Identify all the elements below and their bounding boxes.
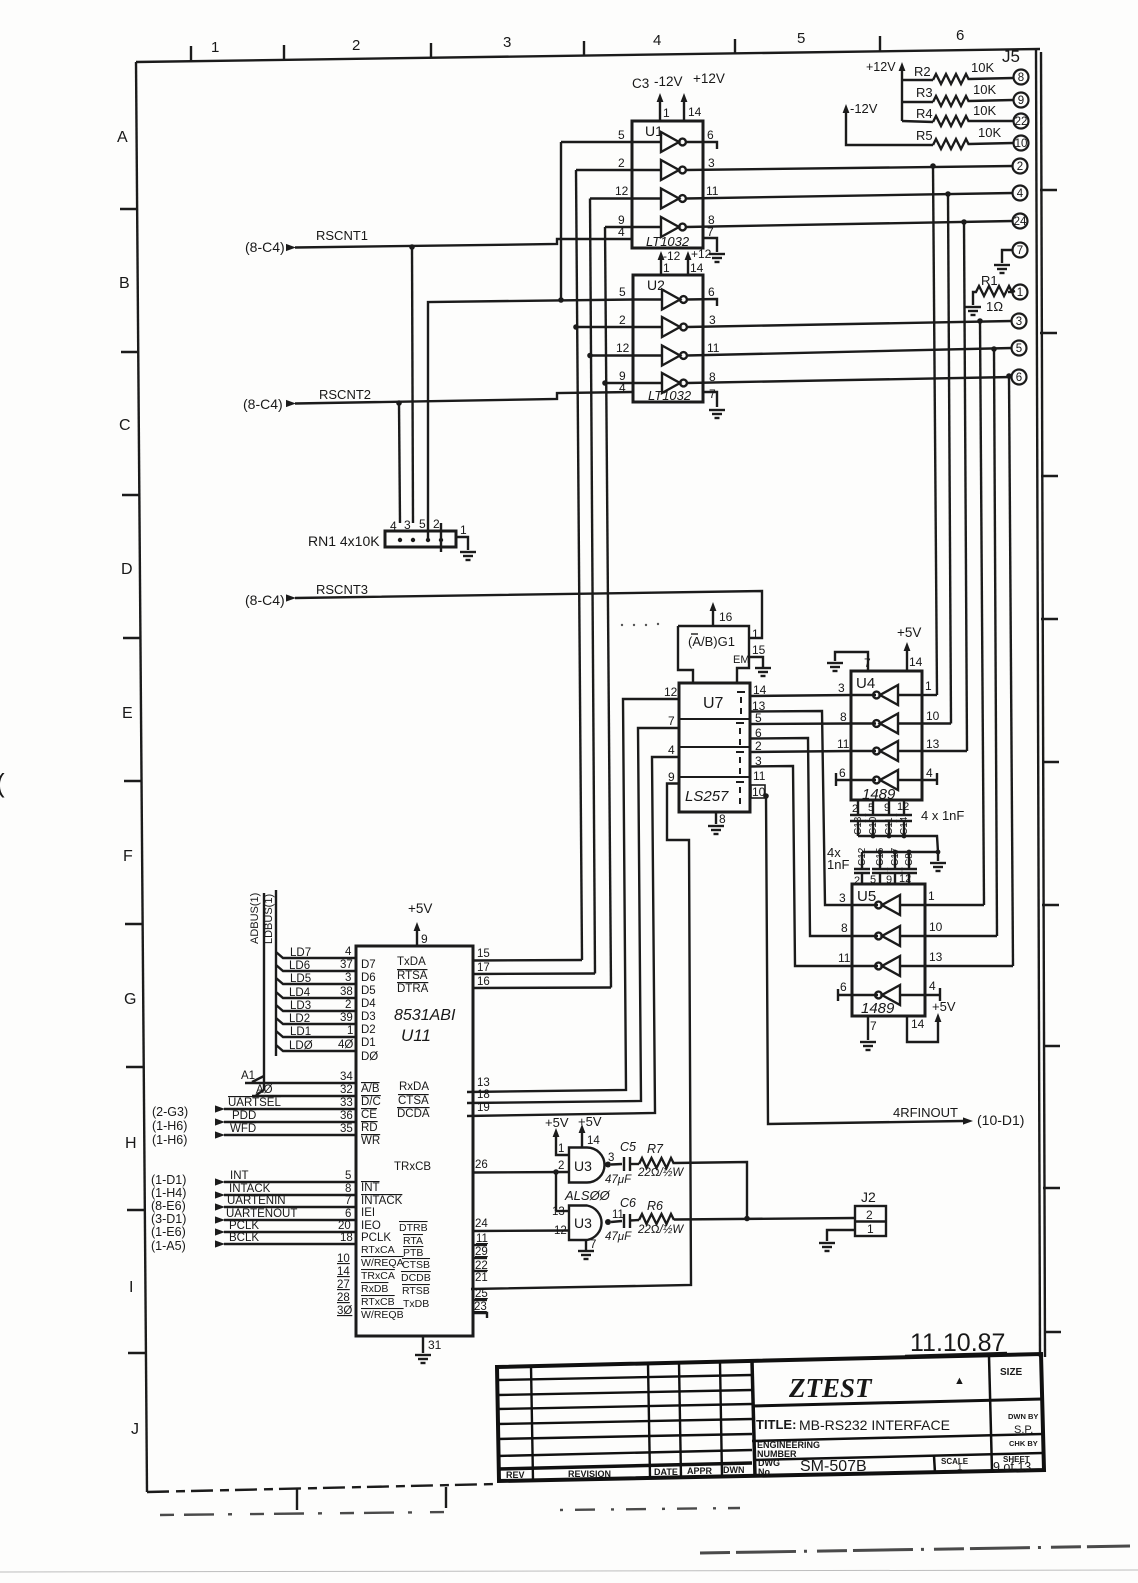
svg-text:4: 4 [1017,188,1024,200]
U3a output to C5 [611,1163,622,1166]
svg-text:8531ABI: 8531ABI [394,1007,456,1024]
U2 pin11 out wire to J5.5 [687,348,1012,356]
resistor R5 [933,139,969,149]
svg-text:DCDA: DCDA [397,1108,430,1120]
U5 input wires [900,904,925,906]
svg-text:C: C [119,417,131,434]
U4 pin1 wire [922,694,937,696]
off-page arrow RSCNT3 [286,594,296,601]
svg-text:14: 14 [911,1017,925,1031]
svg-text:37: 37 [340,959,353,971]
LD2 wire [276,1018,356,1024]
revision table h-lines [497,1375,752,1380]
ruler tick top 3 [430,43,432,58]
svg-text:+5V: +5V [408,901,432,916]
svg-text:IEI: IEI [361,1207,375,1219]
svg-text:6: 6 [839,766,846,780]
svg-text:2: 2 [558,1160,564,1172]
svg-text:13: 13 [477,1077,490,1089]
svg-text:1: 1 [928,889,935,903]
svg-text:4Ø: 4Ø [338,1039,353,1051]
svg-text:C15: C15 [875,847,886,866]
LD0 wire [276,1045,356,1051]
U7 pin5 wire from U4.8 [750,722,851,725]
svg-text:2: 2 [866,1208,873,1222]
svg-text:D2: D2 [361,1024,376,1036]
-12V arrow feed wire [846,110,933,145]
U2 pin7 ground stub [703,392,717,407]
vertical U1.9 to U2.9 to DTRA [605,227,611,988]
svg-text:4 x 1nF: 4 x 1nF [921,808,964,823]
svg-text:C11: C11 [884,817,895,835]
UARTENIN wire [224,1206,356,1208]
svg-text:7: 7 [345,1195,351,1207]
DTRB wire [473,1229,569,1232]
svg-text:16: 16 [719,610,733,624]
J5 pin circle 10 [1014,136,1029,151]
svg-text:LT1032: LT1032 [648,388,692,403]
svg-text:22: 22 [1015,116,1028,128]
svg-text:LDØ: LDØ [289,1040,313,1052]
wire RSCNT1 junction down to RN1.3 [412,247,413,523]
svg-text:9: 9 [1018,95,1024,107]
U1 pin14 power [683,99,685,121]
svg-text:SCALE: SCALE [941,1457,969,1466]
svg-text:+12: +12 [691,247,712,261]
svg-text:11: 11 [476,1233,488,1245]
U3b output to C6 [611,1221,622,1222]
svg-text:W/REQB: W/REQB [361,1309,404,1321]
svg-text:14: 14 [587,1135,600,1147]
U5 pin10 wire [925,935,997,937]
U7 pin2 wire from U4.11 [750,751,851,752]
svg-text:5: 5 [797,30,805,47]
svg-text:H: H [125,1135,137,1152]
svg-text:15: 15 [477,948,490,960]
pin10 square [751,785,765,798]
svg-text:LD1: LD1 [290,1026,311,1038]
svg-text:13: 13 [552,1206,565,1218]
main divider left of ZTEST [752,1361,755,1476]
svg-text:24: 24 [1014,216,1027,228]
svg-text:39: 39 [340,1012,353,1024]
svg-text:27: 27 [337,1279,350,1291]
svg-text:3: 3 [708,156,715,170]
svg-text:+5V: +5V [545,1115,569,1130]
svg-text:R3: R3 [916,85,933,100]
svg-text:LD2: LD2 [289,1013,310,1025]
J5 pin circle 5 [1012,341,1027,356]
svg-text:33: 33 [340,1097,353,1109]
svg-text:LDBUS(1): LDBUS(1) [263,894,275,944]
svg-text:18: 18 [477,1089,490,1101]
svg-text:ADBUS(1): ADBUS(1) [249,893,261,944]
svg-text:6: 6 [840,980,847,994]
svg-text:6: 6 [956,27,964,44]
svg-text:32: 32 [340,1084,353,1096]
inverter U1d [661,217,686,237]
svg-text:(8-E6): (8-E6) [151,1199,186,1213]
svg-text:MB-RS232 INTERFACE: MB-RS232 INTERFACE [799,1417,950,1433]
svg-text:1: 1 [957,1462,963,1473]
cap ground bus upper [858,836,938,852]
svg-text:DATE: DATE [654,1467,678,1477]
svg-text:7: 7 [864,656,871,670]
WFD wire [224,1134,356,1136]
J5 pin circle 1 [1013,285,1028,300]
svg-text:11: 11 [753,769,766,783]
wire RN1.5 up to U2.5 [428,300,633,524]
UARTSEL wire [224,1108,356,1110]
svg-text:R4: R4 [916,106,933,121]
U7 pin4 wire down to DCDA [467,757,679,1116]
svg-text:10: 10 [926,709,940,723]
U2 pin1 power [660,256,662,275]
svg-text:RTSA: RTSA [397,970,428,982]
svg-text:(1-A5): (1-A5) [151,1239,186,1253]
U7 pin14 wire from U4.3 [750,695,851,696]
resistor network RN1 box [385,531,456,547]
svg-text:10: 10 [752,785,766,799]
wire RSCNT2 [295,392,633,404]
TxDA wire [473,959,582,962]
svg-text:LD7: LD7 [290,947,311,959]
ruler tick top 6 [879,36,881,51]
+12V arrow feed [901,67,903,121]
data bus rails [264,890,276,1090]
svg-text:(3-D1): (3-D1) [151,1212,186,1226]
svg-text:9 of 13: 9 of 13 [993,1460,1031,1474]
svg-text:LS257: LS257 [685,788,729,805]
IC U5 1489 box [852,884,925,1016]
svg-text:C6: C6 [620,1196,636,1210]
svg-text:(10-D1): (10-D1) [977,1112,1024,1128]
svg-text:S.P.: S.P. [1014,1424,1033,1436]
svg-text:11: 11 [612,1209,624,1221]
svg-text:W/REQA: W/REQA [361,1257,404,1269]
inverter U4b [873,714,898,734]
svg-text:4: 4 [929,979,936,993]
svg-text:21: 21 [475,1272,488,1284]
J5 pin circle 22 [1014,114,1029,129]
U5 output wires [852,904,878,906]
svg-text:(8-C4): (8-C4) [245,592,285,608]
svg-text:D/C: D/C [361,1096,381,1108]
svg-text:No.: No. [758,1467,773,1477]
svg-text:D4: D4 [361,998,376,1010]
U4 input wires to right bus [898,694,922,696]
svg-text:7: 7 [709,387,716,401]
svg-text:3: 3 [755,754,762,768]
svg-text:DTRB: DTRB [399,1222,428,1234]
LD6 wire [276,965,356,971]
svg-text:10: 10 [929,920,943,934]
svg-text:RTxCB: RTxCB [361,1296,395,1308]
SCALE column [934,1456,935,1473]
svg-text:23: 23 [474,1301,487,1313]
svg-text:10K: 10K [973,82,996,97]
inverter U5d [875,985,900,1005]
left signal labels [226,947,313,1244]
off-page arrow RSCNT1 [286,244,296,251]
ruler tick top 5 [734,39,736,54]
svg-text:ZTEST: ZTEST [788,1373,873,1403]
bus wire to J5.4 [948,194,951,724]
svg-text:25: 25 [475,1288,488,1300]
svg-text:12: 12 [554,1225,567,1237]
LD7 wire [276,952,356,958]
right stub pins [473,1244,487,1246]
U4 pin14 power [906,648,908,671]
svg-text:RTxCA: RTxCA [361,1244,395,1256]
svg-text:(8-C4): (8-C4) [245,239,285,255]
ruler tick top 2 [283,45,285,60]
U2 pin6 stub [687,299,717,306]
svg-text:CE: CE [361,1109,377,1121]
svg-text:5: 5 [619,285,626,299]
U3a pin2 junction to pin13 [555,1172,557,1211]
INTACK wire [224,1194,356,1196]
svg-text:UARTENIN: UARTENIN [227,1195,286,1207]
U4 pin7 ground [835,652,868,671]
svg-text:9: 9 [668,770,675,784]
left off page arrows [215,1105,225,1112]
U3a pin1 +5V [556,1134,569,1155]
J5 pin7 to ground [1002,250,1012,263]
ruler tick top 1 [190,46,192,61]
inverter U5a [875,895,900,915]
TRxCB wire [473,1171,569,1174]
frame right border [1036,49,1040,1357]
wire R2 row [902,79,933,81]
svg-text:TRxCB: TRxCB [394,1161,431,1173]
svg-text:38: 38 [340,986,353,998]
svg-text:INTACK: INTACK [229,1183,271,1195]
svg-text:CTSB: CTSB [402,1259,430,1271]
U1 pin7 ground stub [703,238,717,252]
svg-text:UARTENOUT: UARTENOUT [226,1208,297,1220]
svg-text:9: 9 [884,802,890,814]
svg-text:DWN: DWN [723,1465,745,1475]
svg-text:J5: J5 [1002,47,1020,66]
svg-text:+5V: +5V [897,625,921,640]
svg-text:3: 3 [608,1152,614,1164]
svg-text:C17: C17 [890,847,901,866]
svg-text:WFD: WFD [230,1123,256,1135]
svg-text:U11: U11 [401,1026,431,1045]
right pin numbers [474,948,490,1313]
U2 input wires [633,298,662,300]
R7 out wire down to R6 [674,1162,747,1219]
resistor R3 [933,96,969,106]
bus wire to J5.6 [1009,376,1013,966]
svg-text:26: 26 [475,1159,488,1171]
frame bottom border [147,1484,497,1492]
svg-text:35: 35 [340,1123,353,1135]
bus wire to J5.3 [980,321,984,905]
resistor R7 [639,1158,674,1168]
svg-text:RSCNT3: RSCNT3 [316,582,368,597]
svg-text:4RFINOUT: 4RFINOUT [893,1105,958,1120]
svg-text:1: 1 [460,523,467,537]
svg-text:14: 14 [909,655,923,669]
svg-text:-12V: -12V [654,74,683,89]
svg-text:C8: C8 [904,853,915,866]
svg-text:47μF: 47μF [605,1174,632,1186]
U2 pin8 out wire to J5.6 [687,377,1012,383]
svg-text:A1: A1 [241,1070,255,1082]
U5 pin14 power hook [907,1016,938,1042]
U11 pin9 power [416,928,418,946]
svg-text:18: 18 [340,1232,353,1244]
svg-text:(1-E6): (1-E6) [151,1225,186,1239]
U1 pin11 out wire to J5.4 [686,193,1013,199]
vertical U1.5 bus [560,142,562,300]
svg-text:5: 5 [1016,343,1022,355]
svg-text:PDD: PDD [232,1110,256,1122]
U4 pin4 stub [898,773,937,785]
svg-text:APPR: APPR [687,1466,713,1476]
svg-text:47μF: 47μF [605,1231,632,1243]
svg-text:WR: WR [361,1135,380,1147]
U5 pin7 ground [867,1016,869,1040]
svg-text:6: 6 [708,285,715,299]
left sheet refs [151,1105,188,1253]
inverter U2b [662,317,687,337]
U4 bottom pin stubs [857,800,859,815]
svg-text:11: 11 [837,737,850,751]
NAND gate U3a [569,1148,605,1183]
svg-text:RD: RD [361,1122,378,1134]
svg-text:RSCNT2: RSCNT2 [319,387,371,402]
svg-text:+5V: +5V [578,1114,602,1129]
BCLK wire [224,1243,356,1245]
svg-text:DØ: DØ [361,1051,378,1063]
svg-text:3Ø: 3Ø [337,1305,352,1317]
svg-text:LD4: LD4 [289,987,311,999]
bus wire to J5.5 [994,349,997,936]
A1 wire [245,1076,356,1083]
bus wire to J5.2 [933,166,937,695]
caps C13 C10 C11 C14 top plates [850,815,866,836]
junction dots left bus [409,244,415,250]
svg-text:5: 5 [755,711,762,725]
U2 pin3 out wire to J5.3 [687,321,1012,327]
svg-text:5: 5 [345,1170,351,1182]
svg-text:29: 29 [475,1246,488,1258]
svg-text:6: 6 [1016,372,1022,384]
J5 pin circle 2 [1013,159,1028,174]
svg-text:6: 6 [755,726,762,740]
svg-text:5: 5 [868,802,874,814]
bottom ticks [296,1489,298,1510]
svg-text:J2: J2 [861,1189,876,1205]
inverter U5c [875,956,900,976]
J5 pin circle 7 [1013,243,1028,258]
svg-text:D3: D3 [361,1011,376,1023]
svg-text:-12V: -12V [850,101,878,116]
svg-text:C10: C10 [868,816,879,835]
connector J2 [855,1206,886,1236]
svg-text:6: 6 [707,128,714,142]
inverter U1c [661,189,686,209]
svg-text:16: 16 [477,976,490,988]
J5 pin circle 24 [1013,214,1028,229]
svg-text:9: 9 [421,932,428,946]
svg-text:REVISION: REVISION [568,1469,611,1479]
svg-text:C14: C14 [899,816,910,835]
svg-text:+5V: +5V [932,999,956,1014]
svg-text:J: J [131,1421,139,1438]
svg-text:10: 10 [337,1253,350,1265]
svg-text:15: 15 [752,643,766,657]
U7 pin9 wire down jog to DCDB [471,784,691,1290]
svg-text:R5: R5 [916,128,933,143]
inverter U4d [873,770,898,790]
svg-text:DTRA: DTRA [397,983,429,995]
LD5 wire [276,978,356,984]
U7 pin3 wire down to U5.11 [750,766,852,966]
svg-text:7: 7 [1017,245,1023,257]
capacitor C5 [624,1157,630,1171]
RTSA wire [473,972,595,975]
+12V arrow [899,62,906,71]
svg-text:C13: C13 [853,816,864,835]
bottom scan smudges [0,1508,1138,1572]
svg-text:DWN BY: DWN BY [1008,1412,1038,1421]
4RFINOUT off page [963,1117,973,1124]
SIZE / DWN BY column [989,1356,992,1471]
wire RSCNT3 [295,591,762,638]
svg-text:6: 6 [345,1208,351,1220]
revision table v-lines [531,1366,533,1480]
svg-text:3: 3 [1016,316,1022,328]
svg-text:2: 2 [1017,161,1023,173]
frame top border [136,49,1040,62]
capacitor C6 [624,1214,630,1228]
U5 pin1 wire [925,904,984,906]
inverter U5b [875,926,900,946]
A0 wire [252,1090,356,1096]
mux select block (A/B)G1 [678,626,749,683]
svg-text:IEO: IEO [361,1220,381,1232]
U1 pin1 power [659,99,661,121]
svg-text:R7: R7 [647,1142,664,1156]
svg-text:1: 1 [663,261,670,275]
LD4 wire [276,992,356,998]
off-page arrow RSCNT2 [286,400,296,407]
svg-text:C12: C12 [857,847,868,866]
svg-text:5: 5 [618,128,625,142]
U7 pin8 ground [715,812,717,824]
pin16 arrow [712,608,714,626]
svg-text:RSCNT1: RSCNT1 [316,228,368,243]
svg-text:12: 12 [664,685,678,699]
svg-text:-12: -12 [663,249,681,263]
pin15 to ground [749,657,763,667]
caps C12 C15 C17 C8 [854,852,870,884]
svg-text:▲: ▲ [954,1375,965,1387]
inside labels right [394,956,431,1310]
PDD wire [224,1121,356,1123]
bottom-left pin numbers with underline [337,1253,352,1317]
svg-text:INTACK: INTACK [361,1195,403,1207]
svg-text:10K: 10K [971,60,994,75]
U7 pin13 wire down to U5.3 [750,711,852,905]
vertical U1.2 to U2.2 to TxDA [576,170,582,960]
svg-text:5: 5 [419,517,426,531]
svg-text:B: B [119,275,130,292]
